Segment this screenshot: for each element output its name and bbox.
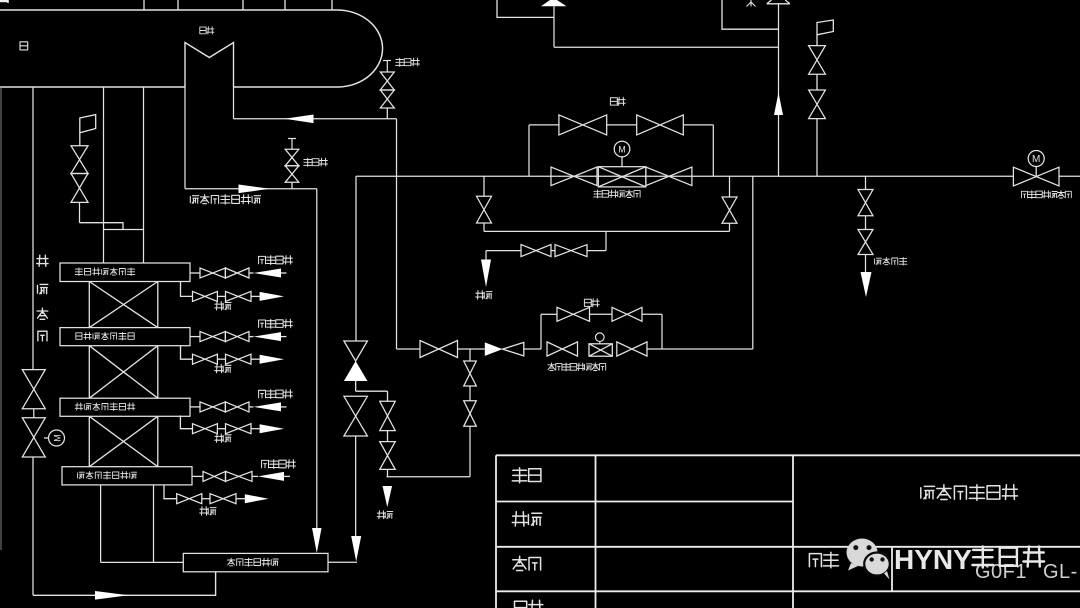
label 排污 — [200, 507, 216, 515]
label 排污 — [215, 302, 231, 310]
wire: riser x=778.5 with up arrow — [778, 4, 780, 177]
wire: measuring loop bottom y=231.4 — [484, 230, 730, 232]
valve: main line gate valve left — [551, 167, 597, 186]
valve: air valve 空气门 #1 — [383, 60, 391, 62]
label 三级省煤器集箱 — [76, 332, 134, 340]
wire: heater air vent line y=118.8 — [234, 118, 397, 120]
label 排污 — [215, 364, 231, 372]
label 空气门 #2 — [304, 158, 328, 166]
blowdown funnel — [481, 260, 491, 288]
svg-text:M: M — [53, 434, 63, 442]
wire: main feedwater line y=176.3 — [356, 175, 1013, 177]
compressed air branch group 2 — [190, 336, 200, 338]
drain branch T x=470 — [469, 349, 471, 361]
wire: drain jog to downcomers — [79, 202, 81, 222]
economizer header box 二级省煤器集箱 — [60, 398, 190, 416]
wire: heater inlet pipe x=233.5 — [233, 87, 235, 119]
economizer coil bank (X box) — [89, 346, 158, 399]
funnel into mixing header — [312, 528, 322, 553]
funnel to mixing header stub — [351, 536, 361, 562]
flow arrow up — [774, 93, 783, 116]
svg-text:M: M — [618, 144, 626, 154]
label 复核 — [513, 556, 541, 570]
safety valve exhaust (filled) top-left — [541, 0, 567, 6]
label 排污 (center) — [476, 291, 492, 299]
label 给水取样 — [875, 257, 907, 265]
valve: air valve 空气门 #2 — [288, 138, 296, 140]
wire: bypass riser x=529 — [528, 125, 530, 176]
valve: emergency drain double gate valve x=79.5 — [71, 146, 88, 174]
compressed air branch group 3 — [190, 406, 200, 408]
measuring loop right drop x=729.5 — [729, 176, 731, 197]
valve: double gate valve stack x=817 — [809, 46, 826, 75]
title block table — [496, 455, 1080, 608]
WeChat logo watermark — [847, 539, 890, 580]
blowdown from measuring loop x=606 — [605, 231, 607, 250]
feedwater mixing header box 给水混合集箱 — [183, 553, 328, 571]
label 加热 — [200, 27, 214, 34]
valve: west-end stop valve (half filled) x=356 — [344, 341, 368, 361]
wire: heater-inlet bypass y=314.3 — [541, 313, 557, 315]
control valve: 主给水调节门 body — [598, 167, 646, 187]
wire: drum heater outlet pipe x=185 — [184, 87, 186, 189]
drum vessel 汽包 — [0, 10, 383, 87]
economizer coil bank (X box) — [89, 282, 158, 328]
flow arrow right on recirc bottom line — [95, 591, 129, 600]
wire: drain collector y=476.7 — [387, 476, 470, 478]
compressed air branch group 1 — [190, 272, 200, 274]
wire: x=817 down to main line — [816, 119, 818, 177]
drum top riser tubes — [144, 0, 332, 10]
economizer header box 一级省煤器集箱 — [62, 467, 192, 485]
wire: manifold corner x=497 — [497, 0, 554, 17]
wire: bypass return drop x=713.3 — [712, 125, 714, 176]
svg-text:HYNY: HYNY — [894, 544, 972, 575]
wire: funnel drop x=387.5 — [383, 486, 393, 507]
blowdown branch group 1 — [181, 282, 193, 297]
blowdown branch group 4 — [164, 485, 177, 499]
label 包 — [20, 42, 28, 50]
economizer header box 三级省煤器集箱 — [60, 328, 190, 346]
actuator circle M — [621, 157, 623, 167]
wire: manifold header y=47.2 — [554, 46, 779, 48]
label 四级省煤器集箱 — [75, 268, 135, 276]
wire: branch y=391.2 — [356, 390, 388, 392]
valve: heater inlet reg valve group — [547, 342, 578, 356]
label 批准 — [512, 468, 541, 483]
label 压缩空气 — [262, 460, 296, 469]
wire: drop to funnel x=486 — [485, 251, 487, 260]
wire: manifold drop x=554 — [553, 6, 555, 47]
wire: economizer outlet U pipes — [100, 485, 102, 563]
measuring loop left drop x=484 — [483, 176, 485, 196]
valve: bypass gate valve 2 — [637, 115, 684, 135]
wire: heater inlet feed drop x=752.8 — [752, 176, 754, 349]
instrument flag x=817 — [817, 20, 833, 35]
svg-text:M: M — [1032, 154, 1040, 165]
label 一级省煤器集箱 — [78, 472, 137, 480]
label 二级省煤器集箱 — [75, 403, 135, 411]
wire: drum downcomer x=103.5 — [103, 87, 105, 263]
valve: recirculation gate valve 2 (motorized) — [22, 418, 45, 457]
label 再循环门 vertical — [37, 255, 48, 341]
label 空气门 #1 — [396, 58, 420, 66]
sampling branch x=865.5 — [865, 176, 867, 189]
wire: heater outlet downpipe x=316.8 — [316, 189, 318, 528]
valve stack x=387.5 — [387, 391, 389, 401]
label 汽包加热进水调门 — [548, 363, 606, 371]
compressed air branch group 4 — [192, 475, 203, 477]
blowdown branch group 2 — [181, 346, 193, 360]
spray nozzle glyph — [747, 0, 756, 7]
label 压缩空气 — [259, 256, 293, 265]
wire: loop blowdown line y=250.6 — [486, 250, 521, 252]
valve: heater inlet isolation — [420, 341, 458, 358]
wire: manifold corner x=722 — [722, 0, 779, 29]
label 排污 — [215, 434, 231, 442]
economizer header box 四级省煤器集箱 — [60, 263, 190, 282]
title 锅炉汽水系统 — [921, 485, 1018, 501]
valve: 主给水电动总门 motor-operated — [1013, 167, 1059, 186]
UI fragment top-left corner — [0, 0, 8, 3]
safety valve outline triangle x=778 — [767, 0, 790, 4]
valve: bypass gate valve 1 — [559, 115, 607, 135]
blowdown branch group 3 — [180, 415, 192, 428]
wire: mixing header right stub — [328, 561, 357, 563]
svg-text:GL-: GL- — [1043, 561, 1078, 583]
economizer coil bank (X box) — [89, 416, 158, 466]
label 图号 — [809, 552, 838, 568]
valve: recirculation gate valve 1 — [22, 370, 45, 409]
wire: west end drop x=356 — [355, 176, 357, 341]
flow arrow left on air vent line — [285, 115, 314, 124]
label 给水混合集箱 — [227, 558, 278, 566]
label 压缩空气 — [259, 390, 293, 399]
flow arrow right on heater outlet — [239, 185, 271, 194]
label 旁路 (upper) — [610, 97, 625, 105]
check valve — [485, 342, 503, 356]
wire: feedwater bypass line y=124.9 — [529, 124, 559, 126]
label 主给水调节门 — [594, 190, 640, 198]
wire: heater-inlet bypass riser x=541 — [540, 314, 542, 349]
label 审核 — [512, 512, 541, 526]
valve: main line gate valve right — [646, 167, 692, 186]
wire: riser to heater inlet x=396.5 — [396, 119, 398, 349]
label 汽包加热器出水 — [190, 195, 260, 205]
wire: mixing header drain + recirc bottom line — [33, 572, 216, 596]
valve: gate below x=356 — [344, 396, 368, 436]
label 排污 (x=387) — [377, 511, 393, 519]
wire: drum downcomer x=143.5 — [143, 87, 145, 263]
instrument flag on emergency drain valve — [80, 115, 96, 133]
wire: left boiler wall line (faint) — [0, 87, 2, 550]
label 主给水电动总门 — [1022, 191, 1072, 199]
label 旁路 (lower) — [584, 299, 599, 307]
label 制图 — [515, 600, 544, 608]
wire: heater outlet line y=188.8 — [185, 188, 317, 190]
wire: heater inlet line y=349 — [397, 348, 421, 350]
label 压缩空气 — [259, 319, 293, 328]
drum heater coil (M notch) — [185, 43, 234, 88]
motor operator circle M — [44, 437, 49, 439]
sampling funnel — [861, 272, 872, 297]
wire: recirculation downcomer x=33 — [32, 87, 34, 370]
